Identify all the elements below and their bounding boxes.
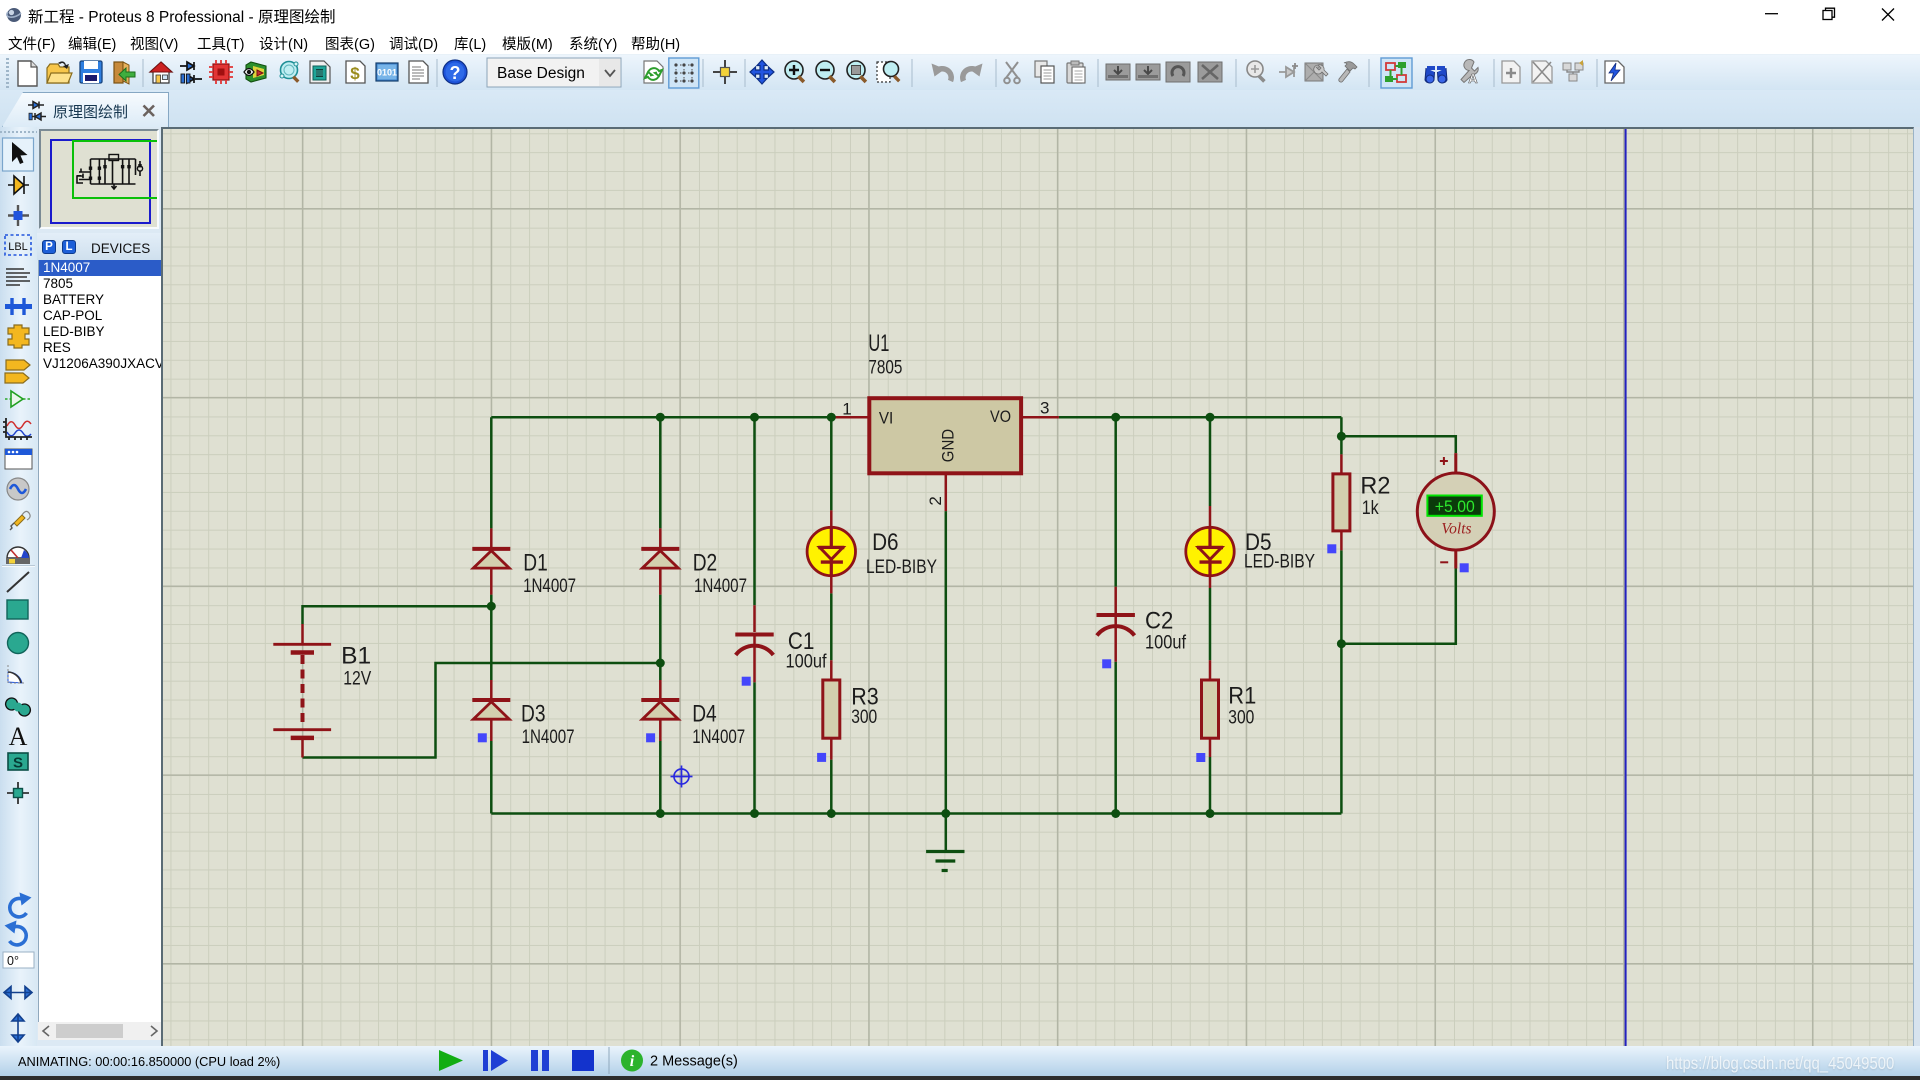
voltmeter minus terminal <box>1440 561 1448 563</box>
wire top rail (VI net) <box>491 416 831 419</box>
svg-text:R2: R2 <box>1360 472 1390 499</box>
diode D3 pins <box>490 680 493 741</box>
junction D2 top rail <box>656 413 665 422</box>
menu bar <box>0 28 1920 54</box>
diode D2 pins <box>659 528 662 594</box>
wire C2 column <box>1114 417 1117 813</box>
diode D2 <box>641 549 679 568</box>
pin number 2 <box>926 496 945 505</box>
left panel <box>37 127 163 1046</box>
wire D2/D4 column <box>659 417 662 813</box>
diode D4 <box>641 700 679 719</box>
svg-text:?: ? <box>450 63 461 83</box>
status bar <box>0 1046 1920 1076</box>
selection marker R3 <box>817 753 826 762</box>
svg-text:A: A <box>9 722 28 751</box>
svg-text:D3: D3 <box>521 701 546 728</box>
diode D1 pins <box>490 528 493 594</box>
diode D4 pins <box>659 680 662 741</box>
wire D5/R1 column <box>1209 417 1212 813</box>
U1 pin 1 (VI) <box>831 416 869 419</box>
wire GND column (pin 2 net) <box>945 511 948 851</box>
svg-text:1N4007: 1N4007 <box>522 727 575 748</box>
title bar <box>0 0 1920 28</box>
battery B1 pins <box>301 624 304 758</box>
U1 pin 3 (VO) <box>1021 416 1059 419</box>
selection marker D4 <box>646 733 655 742</box>
junction D5 VO rail <box>1206 413 1215 422</box>
svg-text:1: 1 <box>842 399 851 418</box>
label B1 <box>341 642 371 669</box>
led D5 pins <box>1209 506 1212 588</box>
value 1N4007 (D1) <box>523 576 576 597</box>
overview thumbnail <box>39 129 159 229</box>
value 1N4007 (D2) <box>694 576 747 597</box>
svg-text:12V: 12V <box>343 668 371 689</box>
selection marker R2 <box>1327 544 1336 553</box>
value 100uf (C2) <box>1145 632 1187 653</box>
svg-text:300: 300 <box>1228 707 1254 728</box>
op U1 regulator 7805 body <box>869 398 1021 473</box>
svg-text:R1: R1 <box>1228 682 1256 709</box>
U1 pin 2 (GND) <box>945 473 948 511</box>
value 300 (R1) <box>1228 707 1254 728</box>
junction C1 top rail <box>750 413 759 422</box>
junction voltmeter branch bottom <box>1337 639 1346 648</box>
svg-text:1N4007: 1N4007 <box>523 576 576 597</box>
svg-text:U1: U1 <box>868 330 889 357</box>
svg-text:D4: D4 <box>692 701 717 728</box>
pin number 1 <box>842 399 851 418</box>
svg-text:D1: D1 <box>523 550 548 577</box>
svg-text:D2: D2 <box>693 550 718 577</box>
svg-text:1N4007: 1N4007 <box>694 576 747 597</box>
DEVICES header <box>37 233 163 260</box>
junction ground symbol node <box>941 809 950 818</box>
svg-text:i: i <box>630 1053 635 1070</box>
wire VO rail <box>1059 416 1342 419</box>
wire C1 column <box>753 417 756 813</box>
resistor R2 pins <box>1340 454 1343 550</box>
svg-text:S: S <box>13 755 23 772</box>
svg-text:7805: 7805 <box>868 357 902 378</box>
label U1 <box>868 330 889 357</box>
selection marker D3 <box>478 733 487 742</box>
value 7805 (U1) <box>868 357 902 378</box>
origin crosshair cursor <box>671 766 693 788</box>
diode D3 <box>472 700 510 719</box>
toolbar <box>0 54 1920 90</box>
left sidebar <box>0 127 37 1046</box>
junction D6 top rail <box>827 413 836 422</box>
svg-text:GND: GND <box>938 429 957 462</box>
voltmeter plus terminal <box>1440 457 1448 465</box>
value LED-BIBY (D5) <box>1244 551 1315 572</box>
svg-text:Base Design: Base Design <box>497 65 585 82</box>
svg-text:0101: 0101 <box>377 68 397 78</box>
value 300 (R3) <box>851 707 877 728</box>
wire bottom ground rail <box>491 812 1341 815</box>
svg-text:300: 300 <box>851 707 877 728</box>
value 1N4007 (D4) <box>692 727 745 748</box>
capacitor C2 <box>1097 615 1135 636</box>
svg-text:100uf: 100uf <box>786 651 828 672</box>
selection marker C2 <box>1102 659 1111 668</box>
label R3 <box>851 684 879 711</box>
junction voltmeter branch top <box>1337 432 1346 441</box>
junction R3 ground rail <box>827 809 836 818</box>
pin number 3 <box>1040 398 1049 417</box>
resistor R1 <box>1202 680 1219 738</box>
capacitor C1 <box>735 635 773 656</box>
resistor R2 <box>1333 474 1350 531</box>
svg-text:2: 2 <box>926 496 945 505</box>
value 1k (R2) <box>1362 498 1379 519</box>
led D6 <box>807 527 855 575</box>
wire voltmeter branch <box>1341 436 1455 643</box>
svg-text:LBL: LBL <box>8 241 28 253</box>
svg-text:B1: B1 <box>341 642 371 669</box>
ground symbol <box>926 852 964 871</box>
svg-text:VI: VI <box>879 408 893 427</box>
junction C1 ground rail <box>750 809 759 818</box>
wire D1/D3 column <box>490 417 493 813</box>
selection marker C1 <box>742 677 751 686</box>
U1 pin name GND <box>938 429 957 462</box>
devices list <box>38 260 162 1022</box>
voltmeter pins <box>1454 453 1457 568</box>
svg-text:D6: D6 <box>872 529 899 556</box>
svg-text:+5.00: +5.00 <box>1435 497 1475 516</box>
junction D4 ground rail <box>656 809 665 818</box>
label D2 <box>693 550 718 577</box>
wire battery positive <box>303 606 492 624</box>
label D3 <box>521 701 546 728</box>
canvas <box>161 127 1914 1046</box>
svg-text:$: $ <box>350 64 360 83</box>
wire R2 column <box>1340 417 1343 813</box>
svg-text:2 Message(s): 2 Message(s) <box>650 1054 738 1070</box>
label R2 <box>1360 472 1390 499</box>
sheet boundary <box>1625 129 1627 1046</box>
capacitor C2 pins <box>1114 587 1117 662</box>
capacitor C1 pins <box>753 605 756 682</box>
label D1 <box>523 550 548 577</box>
junction battery positive node <box>487 602 496 611</box>
led D6 pins <box>830 510 833 593</box>
resistor R3 <box>823 680 840 738</box>
junction battery negative node <box>656 659 665 668</box>
svg-text:1N4007: 1N4007 <box>692 727 745 748</box>
wire battery negative <box>303 663 661 758</box>
svg-text:3: 3 <box>1040 398 1049 417</box>
h scrollbar <box>38 1022 162 1040</box>
combo box <box>487 58 621 87</box>
label C1 <box>788 628 815 655</box>
junction R1 ground rail <box>1206 809 1215 818</box>
svg-text:VO: VO <box>990 407 1011 426</box>
resistor R1 pins <box>1209 660 1212 757</box>
junction C2 ground rail <box>1111 809 1120 818</box>
resistor R3 pins <box>830 660 833 759</box>
value 1N4007 (D3) <box>522 727 575 748</box>
battery B1 <box>273 644 331 738</box>
led D5 <box>1186 527 1234 575</box>
label D4 <box>692 701 717 728</box>
tab bar <box>0 90 1920 127</box>
svg-text:0°: 0° <box>7 954 19 968</box>
value LED-BIBY (D6) <box>866 557 937 578</box>
label D5 <box>1245 529 1272 556</box>
label R1 <box>1228 682 1256 709</box>
svg-text:LED-BIBY: LED-BIBY <box>866 557 937 578</box>
value 12V <box>343 668 371 689</box>
svg-text:A: A <box>1468 71 1478 86</box>
svg-text:Volts: Volts <box>1441 521 1471 538</box>
value 100uf (C1) <box>786 651 828 672</box>
svg-text:C2: C2 <box>1145 607 1173 634</box>
svg-text:LED-BIBY: LED-BIBY <box>1244 551 1315 572</box>
svg-text:1k: 1k <box>1362 498 1379 519</box>
label D6 <box>872 529 899 556</box>
U1 pin name VI <box>879 408 893 427</box>
selection marker voltmeter <box>1460 563 1469 572</box>
voltmeter body <box>1417 473 1494 550</box>
U1 pin name VO <box>990 407 1011 426</box>
diode D1 <box>472 549 510 568</box>
svg-text:100uf: 100uf <box>1145 632 1187 653</box>
selection marker R1 <box>1196 753 1205 762</box>
wire D6/R3 column <box>830 417 833 813</box>
label C2 <box>1145 607 1173 634</box>
junction C2 VO rail <box>1111 413 1120 422</box>
